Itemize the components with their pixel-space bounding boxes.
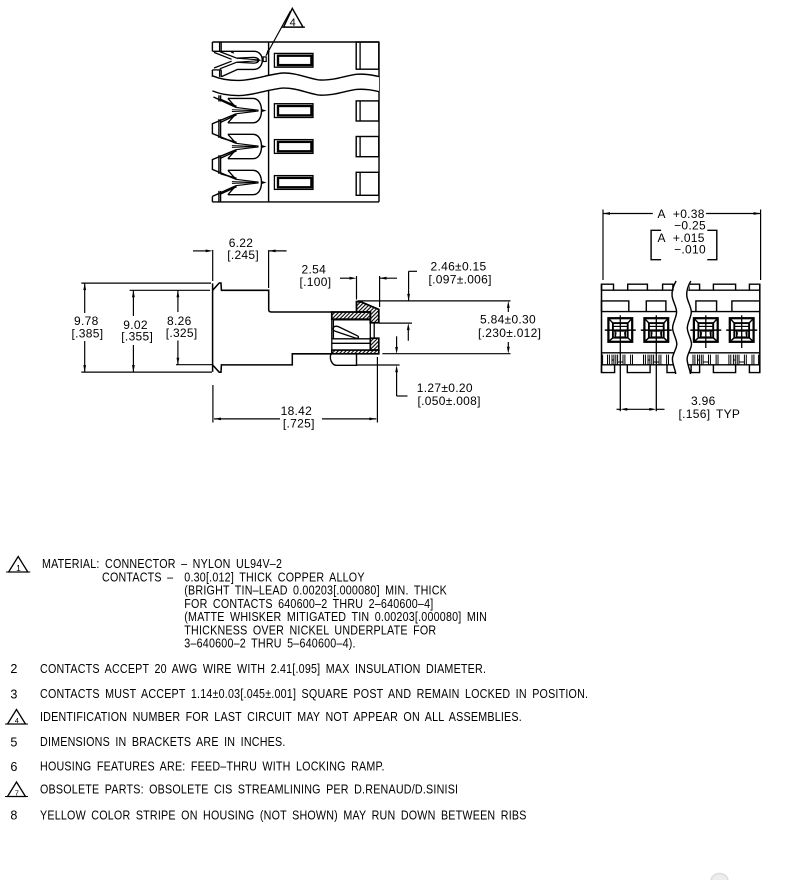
- top view slot row4: [274, 176, 313, 190]
- note 1 flag: [6, 557, 30, 573]
- front view face block 1: [602, 301, 629, 312]
- note 5: [10, 735, 285, 749]
- svg-text:DIMENSIONS IN BRACKETS ARE IN: DIMENSIONS IN BRACKETS ARE IN INCHES.: [40, 735, 286, 749]
- contact bottom wall (section): [332, 350, 379, 354]
- front view top rib 5: [713, 284, 735, 290]
- locking ramp (section): [357, 302, 379, 323]
- svg-text:5.84±0.30: 5.84±0.30: [480, 313, 536, 327]
- dim 2.46 leader: [407, 271, 417, 340]
- front view top rib 2: [628, 284, 648, 290]
- top view slot row1: [274, 53, 313, 67]
- front view break line left: [672, 281, 677, 374]
- svg-text:HOUSING FEATURES ARE: FEED–THR: HOUSING FEATURES ARE: FEED–THRU WITH LOC…: [40, 760, 385, 774]
- dim 18.42 extension lines: [213, 357, 378, 423]
- dim 6.22 leader: [193, 250, 287, 253]
- front view comb slots: [603, 355, 759, 365]
- svg-text:[.100]: [.100]: [300, 275, 332, 289]
- scan artifact: [711, 874, 728, 880]
- dim 9.02 line: [132, 290, 135, 372]
- front view face block 3: [696, 301, 717, 312]
- dim text 18.42: [281, 404, 315, 431]
- dim 18.42 line: [214, 418, 376, 421]
- svg-text:3–640600–2 THRU 5–640600–4).: 3–640600–2 THRU 5–640600–4).: [184, 637, 355, 651]
- svg-text:A: A: [658, 207, 666, 221]
- dim 9.78 line: [83, 283, 86, 372]
- svg-text:[.097±.006]: [.097±.006]: [429, 273, 492, 287]
- front view cavity 4: [726, 315, 757, 348]
- dim text 8.26: [166, 314, 198, 340]
- note 7 flag: [5, 782, 28, 797]
- dim text 1.27: [417, 381, 481, 408]
- svg-text:A: A: [658, 231, 666, 245]
- top view body outline: [212, 42, 379, 202]
- dim A extension lines: [603, 210, 761, 281]
- side view housing outline lower: [213, 354, 332, 372]
- front view lower face line: [602, 352, 760, 354]
- svg-text:MATERIAL: CONNECTOR – NYLON UL: MATERIAL: CONNECTOR – NYLON UL94V–2: [42, 557, 282, 571]
- callout flag 4 with leader arrow: [266, 8, 305, 56]
- dim 6.22 extension lines: [213, 250, 269, 288]
- svg-text:YELLOW COLOR STRIPE ON HOUSING: YELLOW COLOR STRIPE ON HOUSING (NOT SHOW…: [40, 809, 527, 823]
- note 1 line 2: [102, 571, 365, 585]
- note 1 line 6: [184, 624, 436, 638]
- top view corner box top-left: [212, 42, 221, 51]
- body bottom reference line: [357, 364, 400, 366]
- top view contact fork row4: [228, 170, 267, 194]
- contact bottom reference line: [382, 353, 510, 355]
- dim text 6.22: [227, 236, 259, 262]
- svg-text:FOR CONTACTS 640600–2 THRU 2–6: FOR CONTACTS 640600–2 THRU 2–640600–4]: [184, 597, 433, 611]
- svg-text:[.385]: [.385]: [72, 326, 104, 340]
- front view left edge: [601, 284, 603, 372]
- top view rib 1: [356, 42, 379, 69]
- dim A line: [603, 212, 761, 215]
- top view wing above row2: [214, 95, 237, 107]
- top view contact fork row2: [228, 98, 267, 122]
- dim 9.02 extension line: [130, 289, 210, 291]
- top view internal wall line: [268, 42, 270, 202]
- ramp top reference line: [358, 300, 511, 302]
- front view top rib 3: [663, 284, 673, 290]
- front view bottom tab 2: [627, 365, 650, 373]
- front view break line right: [687, 281, 692, 374]
- top view slot row2: [274, 104, 313, 118]
- note 7: [40, 783, 458, 797]
- front view face block 2: [646, 301, 666, 312]
- note 2: [10, 662, 486, 676]
- note 4 flag: [5, 710, 28, 725]
- dim 8.26 line: [177, 290, 180, 364]
- svg-text:[.325]: [.325]: [166, 326, 198, 340]
- front view right edge: [759, 284, 761, 372]
- contact spring beam: [333, 326, 358, 338]
- dim A bracket inches: [651, 230, 717, 259]
- dim text 2.54: [300, 263, 332, 290]
- front view break gap: [672, 281, 691, 374]
- note 8: [10, 809, 526, 823]
- dim text 5.84: [478, 313, 541, 341]
- dim 9.78 extension lines: [81, 283, 212, 372]
- top view rib 4: [356, 172, 379, 195]
- side view housing outline upper: [213, 283, 332, 312]
- front view cavity 3: [690, 315, 721, 348]
- svg-text:0.30[.012] THICK COPPER ALLOY: 0.30[.012] THICK COPPER ALLOY: [184, 571, 364, 585]
- top view slot row3: [274, 140, 313, 154]
- top view break gap: [212, 73, 379, 95]
- top view break line upper: [212, 73, 379, 80]
- front view top rib 6: [749, 284, 759, 290]
- dim 5.84 arrows: [507, 301, 510, 354]
- svg-text:2: 2: [10, 662, 17, 676]
- svg-text:[.050±.008]: [.050±.008]: [418, 394, 481, 408]
- svg-text:8: 8: [10, 809, 17, 823]
- front view top surface line: [602, 289, 760, 291]
- svg-text:5: 5: [10, 735, 17, 749]
- svg-text:[.245]: [.245]: [227, 248, 259, 262]
- front view bottom tab 1: [602, 365, 615, 373]
- svg-text:OBSOLETE PARTS: OBSOLETE CIS S: OBSOLETE PARTS: OBSOLETE CIS STREAMLININ…: [40, 783, 458, 797]
- svg-text:(MATTE WHISKER MITIGATED TIN 0: (MATTE WHISKER MITIGATED TIN 0.00203[.00…: [184, 610, 487, 624]
- ramp bottom reference line: [379, 322, 412, 324]
- top view rib 2: [356, 101, 379, 121]
- front view upper face line: [602, 311, 760, 313]
- note 1 line 5: [184, 610, 487, 624]
- svg-text:4: 4: [15, 716, 19, 725]
- svg-text:IDENTIFICATION NUMBER FOR LAST: IDENTIFICATION NUMBER FOR LAST CIRCUIT M…: [40, 710, 522, 724]
- dim 3.96 lines: [617, 408, 665, 411]
- dim text 9.02: [121, 318, 153, 343]
- front view top rib 1: [602, 284, 614, 290]
- note 3: [10, 687, 588, 701]
- svg-text:[.725]: [.725]: [283, 417, 315, 431]
- front view bottom tab 5: [713, 365, 735, 373]
- contact lower wall lines: [332, 312, 371, 354]
- housing bottom latch tab: [330, 354, 356, 366]
- contact top wall (section): [332, 312, 371, 319]
- svg-text:−.010: −.010: [674, 243, 706, 257]
- front view comb base line: [602, 364, 760, 366]
- svg-text:1: 1: [16, 563, 21, 573]
- top view wing below row4: [212, 186, 236, 202]
- svg-text:7: 7: [15, 788, 19, 797]
- front view cavity 2: [641, 315, 672, 411]
- dim 2.54 extension lines: [357, 276, 380, 307]
- svg-text:CONTACTS ACCEPT 20 AWG WIRE WI: CONTACTS ACCEPT 20 AWG WIRE WITH 2.41[.0…: [40, 662, 486, 676]
- svg-text:CONTACTS –: CONTACTS –: [102, 571, 174, 585]
- dim text 9.78: [72, 314, 104, 340]
- front view cavity 1: [605, 315, 636, 411]
- svg-text:6: 6: [10, 760, 17, 774]
- identification number feature square: [263, 57, 266, 62]
- top view contact fork row3: [228, 134, 267, 158]
- note 1 line 3: [184, 584, 447, 598]
- dim text 2.46: [429, 260, 492, 287]
- dim 1.27 leader: [395, 336, 407, 396]
- front view bottom tab 4: [691, 365, 700, 373]
- svg-text:3: 3: [10, 687, 17, 701]
- svg-text:CONTACTS MUST ACCEPT 1.14±0.03: CONTACTS MUST ACCEPT 1.14±0.03[.045±.001…: [40, 687, 588, 701]
- note 4: [40, 710, 522, 724]
- svg-text:−0.25: −0.25: [674, 218, 706, 232]
- note 1 line 4: [184, 597, 433, 611]
- front view bottom tab 3: [667, 365, 676, 373]
- top view rib 3: [356, 137, 379, 157]
- dim 8.26 extension line: [176, 364, 212, 366]
- svg-text:THICKNESS OVER NICKEL UNDERPLA: THICKNESS OVER NICKEL UNDERPLATE FOR: [184, 624, 436, 638]
- top view wing between rows 3-4: [212, 150, 236, 179]
- front view top rib 4: [689, 284, 700, 290]
- note 6: [10, 760, 384, 774]
- note 1 line 1: [42, 557, 282, 571]
- side view housing left edge: [212, 283, 214, 371]
- top view contact fork row1: [213, 51, 263, 77]
- dim text A +0.38 -0.25: [658, 207, 706, 232]
- svg-text:(BRIGHT TIN–LEAD 0.00203[.0000: (BRIGHT TIN–LEAD 0.00203[.000080] MIN. T…: [184, 584, 447, 598]
- top view wing between rows 2-3: [212, 114, 236, 143]
- front view bottom tab 6: [749, 365, 759, 373]
- note 1 line 7: [184, 637, 355, 651]
- dim text 3.96: [679, 394, 741, 421]
- front view face block 4: [732, 301, 760, 312]
- top view row1 bottom box: [212, 70, 221, 77]
- svg-text:[.230±.012]: [.230±.012]: [478, 326, 541, 340]
- dim 2.54 leader: [340, 277, 397, 280]
- svg-text:[.156] TYP: [.156] TYP: [679, 407, 741, 421]
- svg-text:4: 4: [290, 17, 296, 29]
- svg-text:2.46±0.15: 2.46±0.15: [431, 260, 487, 274]
- top view break line lower: [212, 88, 379, 95]
- contact right lower block (section): [370, 338, 379, 350]
- contact cavity lines: [333, 320, 378, 350]
- svg-text:[.355]: [.355]: [121, 329, 153, 343]
